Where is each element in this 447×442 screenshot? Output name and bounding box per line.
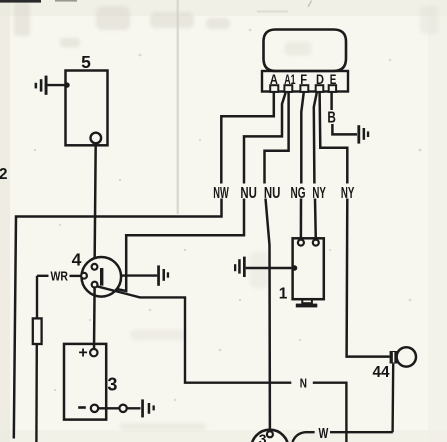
lamp 44 bulb xyxy=(397,347,416,366)
switch 4 top terminal xyxy=(92,264,98,270)
ground (right of B) xyxy=(357,125,369,143)
wire D left branch -> NY xyxy=(314,92,317,184)
switch 4 contact bar xyxy=(100,268,103,286)
svg-text:3: 3 xyxy=(259,431,267,442)
wire A1 right branch -> NU xyxy=(265,92,289,184)
control box terminal strip xyxy=(262,71,348,92)
wire lamp 44 down to W xyxy=(391,364,394,433)
dynamo terminal xyxy=(267,431,273,437)
svg-text:+: + xyxy=(78,345,87,362)
scattered scan speckles (decorative) xyxy=(34,29,422,401)
wire N continued down at right xyxy=(313,383,347,442)
wire W left segment with curve to dynamo xyxy=(293,432,315,442)
wire ground to box 5 xyxy=(48,84,65,86)
wire B to ground xyxy=(332,124,357,134)
svg-text:NW: NW xyxy=(213,185,229,202)
connector eyelet xyxy=(119,405,126,412)
unit 1 left terminal xyxy=(298,240,304,246)
wire NY continued to lamp 44 xyxy=(347,199,390,357)
wire A -> NW xyxy=(221,92,273,184)
battery + terminal xyxy=(90,349,97,356)
ground (battery) xyxy=(141,399,155,417)
ground (left of unit 1) xyxy=(234,257,246,277)
terminal lugs (squares) xyxy=(270,85,336,92)
terminal circle at bottom of box 5 xyxy=(91,133,102,144)
wire resistor down xyxy=(35,344,38,442)
ground (left of box 5) xyxy=(35,76,48,95)
wire N: switch 4 to lower right xyxy=(97,286,292,383)
svg-text:3: 3 xyxy=(107,374,117,394)
lamp 44 holder xyxy=(390,351,398,364)
svg-text:W: W xyxy=(319,426,329,442)
wire WR left segment xyxy=(37,275,49,277)
top-left scan border xyxy=(0,0,41,3)
svg-text:NU: NU xyxy=(264,185,281,202)
svg-text:B: B xyxy=(327,110,336,127)
faint vertical rule bleed xyxy=(177,0,179,214)
switch 4 bottom terminal xyxy=(92,282,98,288)
svg-text:1: 1 xyxy=(279,286,288,303)
svg-text:44: 44 xyxy=(373,364,390,381)
wire D right branch -> NY xyxy=(320,92,348,184)
wire NU continued to dynamo xyxy=(266,199,270,432)
wire E -> B xyxy=(330,92,333,110)
switch 4 left terminal xyxy=(81,273,87,279)
svg-text:NY: NY xyxy=(312,185,326,202)
unit 1 right terminal xyxy=(313,240,319,246)
svg-text:2: 2 xyxy=(0,166,8,183)
wire - terminal to ground xyxy=(97,407,141,409)
svg-text:5: 5 xyxy=(81,52,91,72)
wire NY continued to coil 1 xyxy=(314,199,317,240)
wire NG continued to coil 1 xyxy=(300,199,303,240)
wire W horizontal xyxy=(330,431,393,433)
wire A1 left branch -> NU xyxy=(244,92,286,184)
ignition switch 4 body xyxy=(82,257,122,297)
wire box5 to switch 4 top terminal xyxy=(95,144,96,265)
svg-text:NU: NU xyxy=(240,185,257,202)
svg-text:NY: NY xyxy=(341,185,355,202)
paper shading (decorative) xyxy=(0,0,10,442)
unit 1 pedestal xyxy=(302,299,312,303)
box 5 xyxy=(66,71,108,146)
wire switch 4 to battery + xyxy=(93,288,96,349)
faint marks above control box (decorative) xyxy=(308,1,312,8)
unit 1 body xyxy=(293,238,324,299)
wire F -> NG xyxy=(301,92,304,184)
wire WR down to resistor xyxy=(36,276,38,319)
svg-text:NG: NG xyxy=(291,185,306,202)
ground (right of switch 4) xyxy=(121,274,157,276)
wire WR right segment xyxy=(70,275,82,277)
svg-text:N: N xyxy=(300,376,307,391)
resistor xyxy=(33,318,42,344)
wire NW continued to lower left xyxy=(14,199,222,439)
- mark xyxy=(78,406,86,409)
control box housing xyxy=(264,30,347,72)
battery box xyxy=(64,344,106,420)
dynamo body xyxy=(251,430,288,442)
battery - terminal xyxy=(91,405,98,412)
terminal letters A A1 F D E xyxy=(270,72,336,87)
svg-text:WR: WR xyxy=(50,269,68,283)
svg-text:4: 4 xyxy=(72,250,82,270)
wire NU continued to switch 4 xyxy=(96,199,244,292)
